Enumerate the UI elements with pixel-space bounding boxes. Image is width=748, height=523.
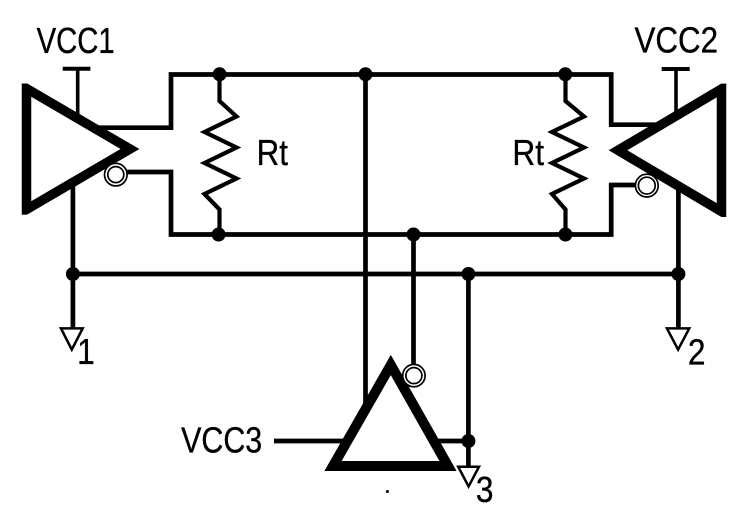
- inversion bubble on U3 input: [403, 364, 425, 386]
- junction dot: right Rt top: [558, 67, 572, 81]
- wire C: ground bus to ground 3: [466, 274, 471, 466]
- svg-text:Rt: Rt: [257, 133, 289, 174]
- ground 2: [667, 328, 689, 349]
- junction dot: wire B at bottom rail: [407, 228, 421, 242]
- inversion bubble on U2 input: [635, 174, 658, 197]
- inversion bubble on U1 output: [105, 163, 128, 186]
- junction dot: right Rt bottom: [558, 228, 572, 242]
- wire U3 right pin stub to wire C: [430, 439, 468, 444]
- corner trim U1 top: [19, 79, 34, 84]
- junction dot: left Rt top: [213, 67, 227, 81]
- svg-text:3: 3: [476, 470, 494, 510]
- ground 3: [458, 467, 479, 487]
- wire bottom ground bus: [73, 272, 679, 277]
- svg-text:VCC1: VCC1: [37, 20, 115, 61]
- wire VCC2 stem: [674, 67, 678, 115]
- buffer U2 (right receiver, points left): [618, 89, 722, 212]
- svg-text:2: 2: [688, 333, 706, 373]
- wire B: bottom rail to U3 inverting input bubble: [411, 235, 416, 365]
- wire A: top rail to U3 input: [363, 75, 368, 413]
- svg-text:VCC2: VCC2: [635, 20, 719, 61]
- VCC1 power bar: [63, 67, 91, 71]
- wire VCC1 stem: [76, 67, 80, 117]
- junction dot: ground bus left end: [66, 267, 80, 281]
- wire bottom rail with jogs to U1 and U2 inverting outputs: [125, 172, 636, 235]
- corner trim U1 bottom: [19, 215, 34, 221]
- resistor Rt (right): [552, 75, 584, 235]
- buffer U1 (left driver, points right): [27, 89, 131, 210]
- buffer U3 (bottom, points up): [333, 365, 448, 466]
- wire VCC3 to U3: [274, 439, 412, 444]
- svg-text:1: 1: [77, 332, 95, 372]
- svg-text:Rt: Rt: [512, 133, 544, 173]
- corner trim U2 top: [716, 79, 730, 84]
- wire top rail with jogs to U1 and U2 outputs: [90, 75, 661, 128]
- corner trim U2 bottom: [716, 217, 730, 223]
- junction dot: wire A at top rail: [359, 67, 373, 81]
- ground 1: [61, 328, 83, 349]
- resistor Rt (left): [205, 75, 237, 235]
- junction dot: left Rt bottom: [212, 228, 226, 242]
- wire U1 lower pin to ground 1: [71, 180, 76, 329]
- junction dot: wire C at ground bus: [461, 267, 475, 281]
- junction dot: U3 output at wire C: [461, 434, 475, 448]
- VCC2 power bar: [662, 67, 690, 71]
- wire U2 lower pin to ground 2: [676, 184, 681, 329]
- svg-text:VCC3: VCC3: [181, 421, 262, 461]
- junction dot: ground bus right end: [671, 267, 685, 281]
- stray mark: [386, 490, 389, 493]
